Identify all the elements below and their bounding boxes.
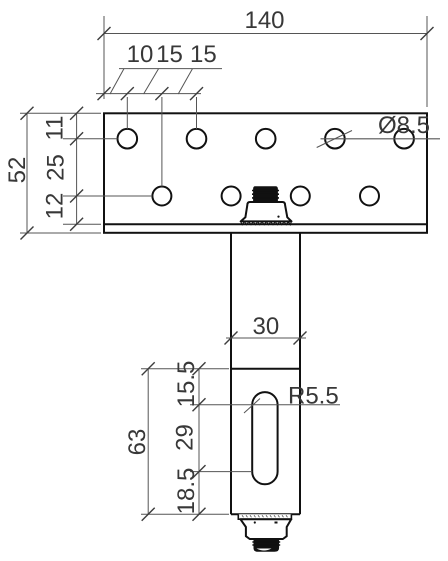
vertical bar left edge (230, 233, 232, 514)
svg-text:11: 11 (42, 116, 69, 141)
svg-text:15: 15 (156, 41, 183, 68)
hole second row 4 (360, 187, 379, 206)
ext line slot top center / R5.5 leader (190, 404, 340, 406)
tick 140 right (421, 27, 434, 40)
hole second row 1 (152, 187, 171, 206)
ext line slot bottom center (190, 471, 252, 473)
svg-text:R5.5: R5.5 (288, 383, 339, 410)
tick chain top 0 (98, 87, 111, 100)
hole top row 3 (256, 129, 276, 149)
tick chain top 25 (155, 87, 168, 100)
dim 52 line (26, 113, 28, 233)
bottom bolt flange serration (242, 515, 288, 517)
vertical bar bottom edge (231, 513, 300, 515)
tick left chain 48 (70, 218, 83, 231)
top bolt (241, 186, 292, 225)
tick 52 top (21, 107, 34, 120)
hole top row 2 (187, 129, 207, 149)
bottom bolt thread (black) (254, 539, 280, 552)
svg-text:25: 25 (43, 154, 70, 181)
tick left chain 36 (70, 190, 83, 203)
hole second row 2 (222, 187, 241, 206)
tick chain top 10 (121, 87, 134, 100)
bottom bolt thread ridges (252, 542, 280, 545)
ext line inner bottom left (63, 223, 101, 225)
ext line plate bottom left (20, 232, 101, 234)
svg-text:52: 52 (4, 157, 31, 184)
tick 63 top (142, 362, 155, 375)
ext line hole row2 left (63, 195, 152, 197)
leader dia 8.5 (321, 138, 441, 140)
shelf line for 10/15/15 (119, 68, 222, 70)
tick 63 bottom (142, 508, 155, 521)
svg-text:30: 30 (253, 313, 280, 340)
svg-text:12: 12 (42, 193, 69, 220)
inner left dim line 11/25/12 (76, 113, 78, 224)
bottom bolt face dots (254, 521, 256, 523)
svg-text:63: 63 (124, 429, 151, 456)
ext line hole1 top (126, 97, 128, 129)
bottom bolt thread highlight (257, 549, 272, 551)
slot (obround) (252, 392, 277, 484)
bottom bolt nut body (240, 519, 291, 539)
ext line joint left (141, 368, 229, 370)
dim 140 line (104, 33, 427, 35)
tick 140 left (98, 27, 111, 40)
leader dia 8.5 slash (317, 131, 352, 148)
tick left chain 0 (70, 107, 83, 120)
dim 30 line (226, 337, 306, 339)
svg-text:10: 10 (127, 41, 154, 68)
tick lower chain 63 (193, 508, 206, 521)
bar joint line (231, 368, 300, 370)
R5.5 leader slash (244, 399, 260, 414)
bottom bolt serrated flange (238, 514, 291, 519)
ext line plate top left (20, 112, 101, 114)
leader diagonal 15a (144, 69, 159, 94)
vertical bar right edge (299, 233, 301, 514)
svg-text:140: 140 (244, 7, 284, 34)
plate outline (104, 113, 427, 233)
top bolt flange body (241, 202, 292, 221)
bottom bolt (238, 514, 291, 552)
svg-text:15: 15 (190, 41, 217, 68)
leader diagonal 15b (178, 69, 192, 94)
dim 10/15/15 line (96, 93, 201, 95)
tick 30 left (225, 332, 238, 345)
hole top row 4 (325, 129, 345, 149)
tick 52 bottom (21, 227, 34, 240)
ext line hole row1 left (63, 138, 118, 140)
tick lower chain 15.5 (193, 398, 206, 411)
plate inner bottom edge line (104, 223, 427, 225)
svg-text:29: 29 (172, 424, 199, 451)
tick lower chain 0 (193, 362, 206, 375)
leader diagonal 10 (110, 69, 124, 94)
tick chain top 40 (190, 87, 203, 100)
hole top row 1 (118, 129, 138, 149)
svg-text:Ø8.5: Ø8.5 (378, 112, 430, 139)
svg-text:15.5: 15.5 (173, 361, 200, 408)
dim 63 line (147, 369, 149, 514)
svg-text:18.5: 18.5 (173, 468, 200, 515)
ext line hole2 top (196, 97, 198, 129)
tick left chain 11 (70, 132, 83, 145)
hole top row 5 (394, 129, 414, 149)
inner dim line 15.5/29/18.5 (198, 369, 200, 514)
top bolt serrated base (241, 221, 292, 224)
ext line bar bottom left (141, 513, 229, 515)
top bolt thread ridges (252, 191, 279, 198)
tick 30 right (294, 332, 307, 345)
ext line right of 140 (426, 16, 428, 107)
top bolt thread (black) (253, 186, 278, 202)
ext line left of 140 (103, 16, 105, 99)
top bolt face dot (277, 216, 279, 218)
tick lower chain 44.5 (193, 465, 206, 478)
ext line hole row2 (161, 97, 163, 187)
hole second row 3 (291, 187, 310, 206)
